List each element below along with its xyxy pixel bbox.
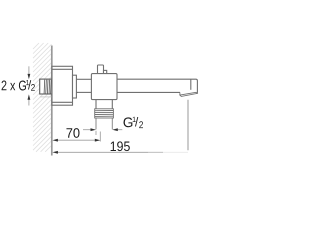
nipple thread hatch xyxy=(44,80,51,94)
dimension 195 xyxy=(58,151,149,153)
dimension 70 xyxy=(58,132,101,142)
wall line xyxy=(51,46,53,156)
nipple lower edge line xyxy=(40,96,52,98)
diverter knob xyxy=(98,65,107,74)
inlet pipe to valve xyxy=(76,79,91,92)
outlet pipe walls doubling as extension lines xyxy=(96,118,112,129)
wall hatching xyxy=(33,43,52,152)
collar nut xyxy=(73,75,77,98)
label 70 xyxy=(66,128,79,138)
spout tip outlet lip xyxy=(180,92,197,96)
label 2 x G1/2 xyxy=(2,80,35,91)
extension line at spout tip xyxy=(187,100,189,151)
valve body xyxy=(91,74,117,100)
outlet thread G1/2 xyxy=(95,109,114,118)
escutcheon flange xyxy=(52,66,73,105)
threaded inlet nipple (behind wall) xyxy=(40,79,52,94)
dimension 2 x G1/2 (vertical, nipple) xyxy=(28,66,30,105)
bottom outlet cylinder xyxy=(96,100,112,109)
spout tube xyxy=(117,79,197,93)
label 195 xyxy=(111,141,130,151)
dimension G1/2 (outlet) xyxy=(83,130,122,135)
label G1/2 xyxy=(123,117,143,128)
